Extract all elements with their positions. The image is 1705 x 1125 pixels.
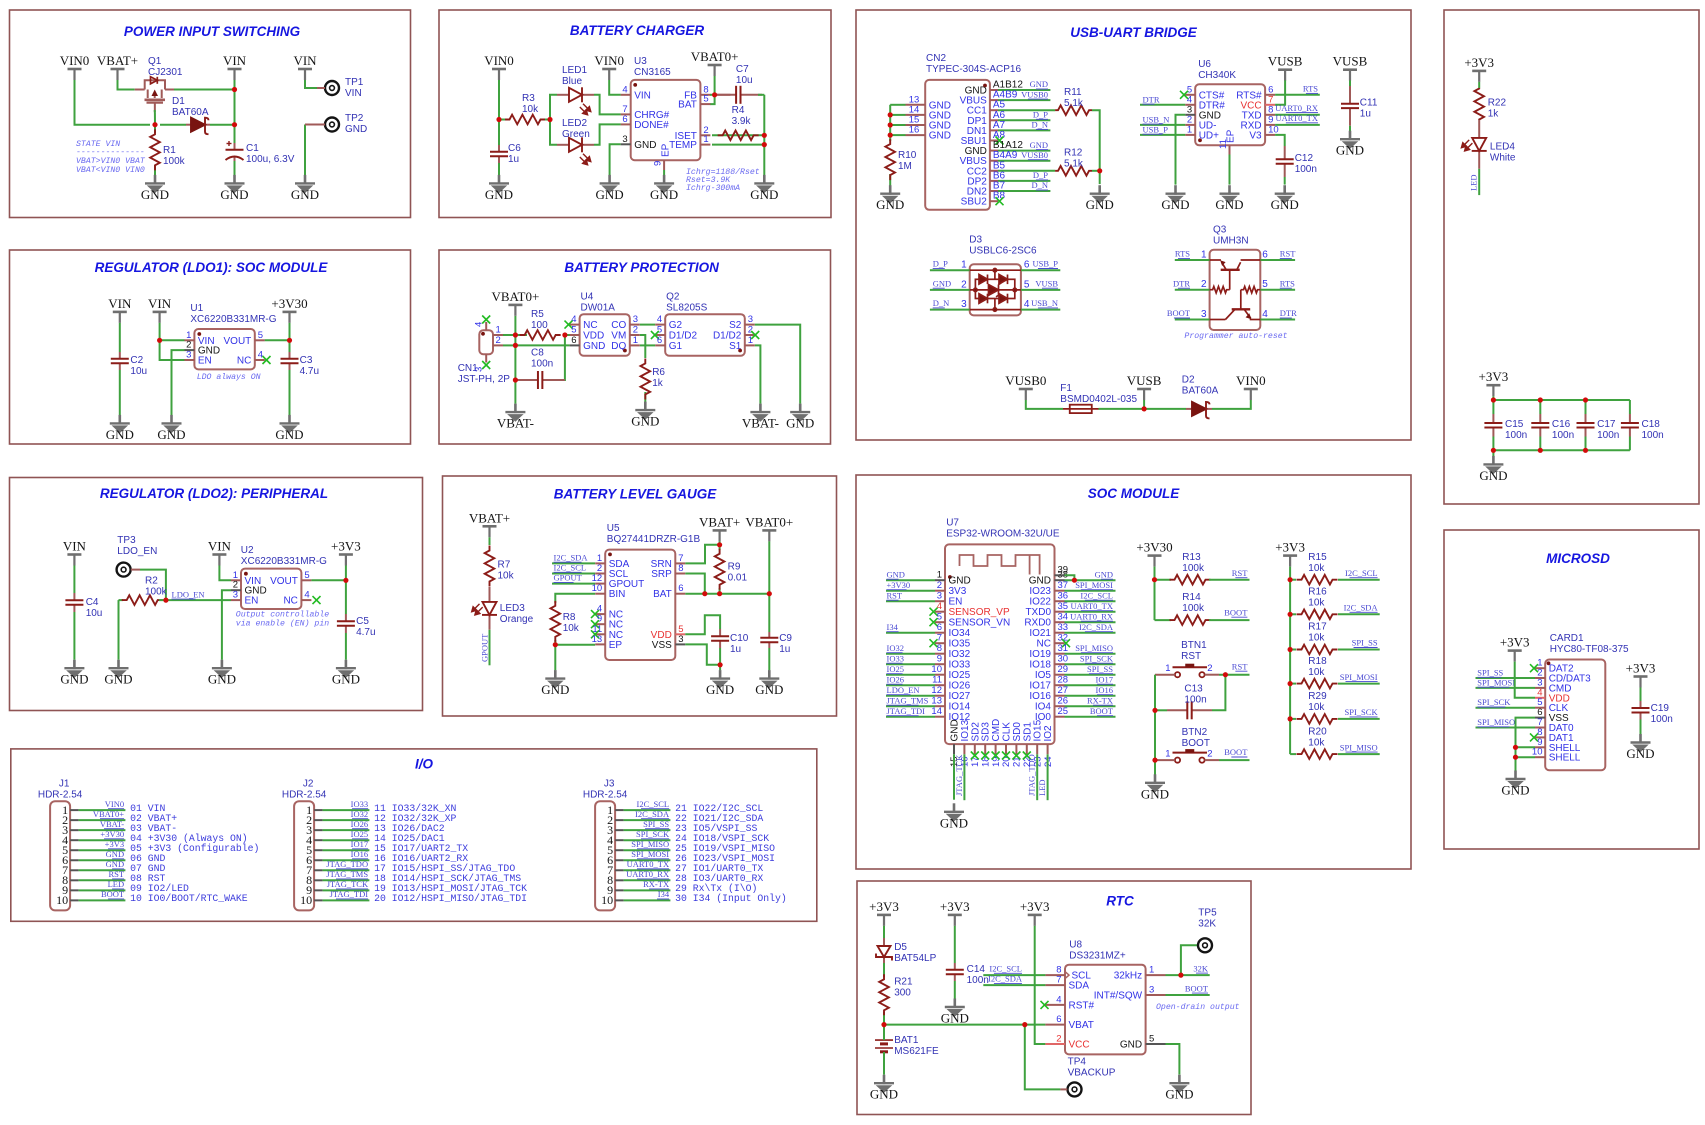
svg-text:1: 1 [633, 335, 638, 346]
wire R18 to SPI_MOSI [1338, 683, 1380, 685]
svg-text:2: 2 [496, 335, 501, 346]
svg-text:LDO_EN: LDO_EN [887, 685, 920, 695]
svg-text:U2: U2 [241, 545, 254, 556]
svg-text:2: 2 [1207, 749, 1212, 760]
svg-text:GND: GND [332, 672, 360, 687]
svg-text:7: 7 [937, 633, 942, 644]
wire JTAG_TDO (J2) [323, 869, 370, 871]
block SOC MODULE [856, 475, 1411, 869]
wire C15 top [1492, 400, 1494, 414]
svg-text:1: 1 [1201, 250, 1207, 261]
svg-text:C15: C15 [1505, 419, 1524, 430]
wire R14 to BOOT [1209, 619, 1250, 621]
pin 14 IO12 (U7) [935, 716, 945, 718]
wire SRP down [685, 574, 705, 594]
svg-text:VBAT0+: VBAT0+ [691, 49, 739, 64]
power +3V3 [1283, 556, 1297, 567]
svg-text:SDA: SDA [1069, 981, 1090, 992]
pin 18 SD3 (U7 bottom) [984, 744, 986, 754]
svg-text:20 IO12/HSPI_MISO/JTAG_TDI: 20 IO12/HSPI_MISO/JTAG_TDI [374, 893, 527, 904]
svg-text:VBAT0+: VBAT0+ [492, 289, 540, 304]
svg-text:10k: 10k [1308, 598, 1325, 609]
power +3V3 [339, 555, 353, 566]
pin 17 SD2 (U7 bottom) [974, 744, 976, 754]
pin 7 SDA (U8) [1045, 984, 1065, 986]
testpoint TP4 [1068, 1082, 1082, 1096]
svg-text:Programmer auto-reset: Programmer auto-reset [1184, 332, 1287, 341]
pin 3 (CN1) [485, 354, 487, 362]
capacitor C17 [1577, 414, 1595, 437]
junction R16 [1288, 612, 1293, 617]
svg-text:GPOUT: GPOUT [554, 573, 583, 583]
power +3V3 [1508, 651, 1522, 662]
svg-text:C4: C4 [86, 597, 99, 608]
pin 1 VIN (U2) [231, 579, 241, 581]
junction VOUT (U2) [343, 578, 348, 583]
no-connect U4 NC [565, 321, 573, 329]
wire DQ to G1 [640, 344, 655, 346]
wire C9 to GND [768, 648, 770, 670]
junction VIN0/R1/D1 node [152, 122, 157, 127]
wire LED2 to DONE# [594, 124, 621, 144]
svg-text:NC: NC [237, 356, 251, 367]
svg-text:GND: GND [876, 197, 904, 212]
ground VBAT- [505, 404, 525, 422]
wire VBAT0+ rail [768, 541, 770, 632]
svg-text:UD+: UD+ [1199, 130, 1219, 141]
wire BIN to R8 [555, 594, 595, 598]
svg-text:CARD1: CARD1 [1550, 633, 1584, 644]
svg-text:VIN: VIN [223, 53, 247, 68]
svg-text:I2C_SDA: I2C_SDA [988, 974, 1023, 984]
power +3V3 [948, 915, 962, 926]
pin 19 CMD (U7 bottom) [995, 744, 997, 754]
pin 37 IO23 (U7) [1055, 590, 1065, 592]
svg-text:5: 5 [1262, 279, 1268, 290]
connector J2 HDR-2.54 [294, 801, 314, 910]
wire R5 to VDD [565, 334, 580, 336]
ground (C10) [710, 670, 730, 688]
svg-text:BTN1: BTN1 [1181, 640, 1207, 651]
svg-text:D1: D1 [172, 96, 185, 107]
wire +3V3 to D5 [883, 926, 885, 938]
svg-text:R3: R3 [522, 93, 535, 104]
ground (C11) [1340, 131, 1360, 149]
svg-text:4: 4 [474, 322, 485, 327]
wire BOOT (U7 right) [1065, 716, 1116, 718]
wire VBAT+ down [719, 541, 721, 546]
wire C7 right down to GND [763, 95, 765, 175]
svg-text:VBAT0+: VBAT0+ [93, 809, 124, 819]
junction R17 [1288, 647, 1293, 652]
wire C18 top [1629, 400, 1631, 414]
svg-text:RST: RST [1232, 568, 1248, 578]
wire SPI_MOSI (U7 right) [1065, 590, 1116, 592]
wire R11 to R12 [1092, 110, 1100, 171]
svg-text:31: 31 [1058, 643, 1069, 654]
svg-text:R5: R5 [531, 309, 544, 320]
svg-text:R4: R4 [732, 105, 745, 116]
wire VSS to C10 bottom [685, 644, 720, 664]
pin 9 NC (U5) [595, 623, 605, 625]
pin 5 SENSOR_VN (U7) [935, 621, 945, 623]
wire node to C1 [234, 125, 236, 143]
svg-text:BOOT: BOOT [1090, 706, 1114, 716]
svg-text:+3V30: +3V30 [100, 829, 124, 839]
pin 8 SCL (U8) [1045, 974, 1065, 976]
pin 2 VCC (U8) [1045, 1043, 1065, 1045]
wire R3 to LED rail [545, 119, 550, 121]
wire UART0_RX (U7 right) [1065, 621, 1116, 623]
wire SHELL10 [1516, 756, 1536, 758]
wire U2 GND down [222, 590, 231, 660]
svg-text:5: 5 [937, 612, 942, 623]
svg-text:R1: R1 [163, 145, 176, 156]
svg-text:JTAG_TMS: JTAG_TMS [326, 869, 368, 879]
svg-text:10k: 10k [1308, 667, 1325, 678]
svg-text:39: 39 [1058, 564, 1069, 575]
op-amp U6 CH340K [1195, 84, 1265, 145]
svg-text:IO19: IO19 [1029, 649, 1051, 660]
svg-text:R6: R6 [652, 367, 665, 378]
wire VBAT0+ rail [514, 316, 516, 404]
no-connect U7 SENSOR_VP [930, 608, 938, 616]
svg-text:IO32: IO32 [351, 809, 368, 819]
svg-text:V3: V3 [1249, 130, 1262, 141]
no-connect Q2 pin5 [651, 331, 659, 339]
svg-text:D5: D5 [894, 942, 907, 953]
svg-text:2: 2 [1207, 663, 1212, 674]
wire USB_N to UD- [1140, 124, 1185, 126]
ground (C19) [1631, 734, 1651, 752]
svg-text:EN: EN [245, 596, 259, 607]
svg-text:HDR-2.54: HDR-2.54 [38, 790, 83, 801]
wire DTR (Q3) [1175, 289, 1210, 291]
svg-text:Q1: Q1 [148, 56, 162, 67]
wire JTAG_TDI (U7 left) [886, 716, 935, 718]
svg-text:SPI_MOSI: SPI_MOSI [631, 849, 669, 859]
svg-text:I34: I34 [658, 889, 670, 899]
wire +3V30 (U7 left) [886, 590, 935, 592]
resistor R4 [718, 131, 759, 141]
junction LDO_EN [163, 598, 168, 603]
svg-text:BAT54LP: BAT54LP [894, 953, 936, 964]
svg-text:GND: GND [104, 672, 132, 687]
svg-text:VBAT>VIN0 VBAT: VBAT>VIN0 VBAT [76, 157, 146, 166]
svg-text:XC6220B331MR-G: XC6220B331MR-G [241, 556, 327, 567]
svg-text:RST: RST [1280, 249, 1296, 259]
svg-text:R2: R2 [145, 576, 158, 587]
junction 32kHz/TP5 [1178, 973, 1183, 978]
svg-text:IO23: IO23 [1029, 586, 1051, 597]
LED LED2 [557, 137, 594, 152]
svg-text:R18: R18 [1308, 656, 1327, 667]
power VUSB [1137, 389, 1151, 400]
svg-text:0.01: 0.01 [728, 573, 748, 584]
svg-text:28: 28 [1058, 675, 1069, 686]
svg-text:CJ2301: CJ2301 [148, 67, 183, 78]
svg-text:IO2: IO2 [1043, 725, 1054, 742]
pin 26 IO4 (U7) [1055, 705, 1065, 707]
wire IO33 (J2) [323, 809, 370, 811]
wire UART0_TX (U7 right) [1065, 611, 1116, 613]
power VIN [67, 555, 81, 566]
svg-text:100u, 6.3V: 100u, 6.3V [246, 154, 295, 165]
svg-text:RXD0: RXD0 [1024, 618, 1051, 629]
block BATTERY LEVEL GAUGE [443, 476, 837, 716]
resistor R12 [1055, 166, 1092, 176]
svg-text:C9: C9 [779, 633, 792, 644]
wire RST (U7 left) [886, 600, 935, 602]
svg-text:R17: R17 [1308, 622, 1327, 633]
svg-text:10k: 10k [522, 104, 539, 115]
svg-text:IO17: IO17 [1096, 674, 1113, 684]
pin 10 IO25 (U7) [935, 674, 945, 676]
no-connect CARD1 DAT2 [1530, 664, 1538, 672]
svg-text:GND: GND [541, 682, 569, 697]
wire SPI_MOSI (CARD1) [1476, 687, 1536, 689]
svg-text:I2C_SDA: I2C_SDA [554, 552, 589, 562]
svg-text:5: 5 [1024, 279, 1030, 290]
svg-text:D_N: D_N [1031, 120, 1048, 130]
svg-text:GND: GND [870, 1087, 898, 1102]
svg-text:I2C_SDA: I2C_SDA [1079, 622, 1114, 632]
svg-text:IO16: IO16 [351, 849, 368, 859]
svg-text:3: 3 [1201, 309, 1207, 320]
svg-text:6: 6 [571, 335, 576, 346]
power VBAT+ [111, 69, 125, 80]
svg-text:BOOT: BOOT [1167, 308, 1191, 318]
wire to SRN [685, 545, 719, 564]
wire C15 bottom [1492, 437, 1494, 451]
wire CN2 pin15 [890, 124, 905, 126]
no-connect U7 SENSOR_VN [930, 618, 938, 626]
svg-text:I2C_SCL: I2C_SCL [637, 799, 670, 809]
wire +3V3 to C19 [1640, 688, 1642, 702]
wire SPI_MOSI (J3) [624, 859, 671, 861]
wire R6 to GND [644, 392, 646, 402]
svg-text:UART0_TX: UART0_TX [627, 859, 669, 869]
svg-text:+3V3: +3V3 [940, 899, 970, 914]
wire VDD to C10 [685, 615, 720, 634]
wire to GND [554, 645, 556, 671]
wire to R13 [1155, 579, 1172, 581]
svg-text:TP3: TP3 [117, 535, 136, 546]
svg-text:IO32: IO32 [949, 649, 971, 660]
pin 4 G2 (Q2) [655, 324, 665, 326]
wire to GND [1099, 171, 1101, 184]
svg-text:BOOT: BOOT [101, 889, 125, 899]
svg-text:EN: EN [949, 597, 963, 608]
svg-text:D2: D2 [1182, 375, 1195, 386]
svg-text:G2: G2 [669, 320, 683, 331]
svg-text:10k: 10k [498, 570, 515, 581]
pin 10 BIN (U5) [595, 593, 605, 595]
svg-text:SPI_SS: SPI_SS [1087, 664, 1113, 674]
svg-text:GND: GND [157, 427, 185, 442]
LED LED3 [482, 587, 497, 630]
svg-text:GND: GND [1086, 197, 1114, 212]
svg-text:VUSB: VUSB [1333, 54, 1368, 69]
svg-text:1u: 1u [779, 644, 790, 655]
svg-text:C3: C3 [300, 355, 313, 366]
pin 27 IO16 (U7) [1055, 695, 1065, 697]
junction BTN2/rail [1152, 758, 1157, 763]
resistor R10 [885, 139, 895, 180]
svg-text:100n: 100n [1505, 430, 1527, 441]
wire GND net GND [998, 89, 1050, 91]
svg-text:GND: GND [941, 1011, 969, 1026]
junction SHELL9 [1513, 745, 1518, 750]
wire +3V3 to VCC [1035, 926, 1046, 1044]
pin 3 CO (U4) [630, 324, 640, 326]
wire R9 to BAT [719, 588, 721, 594]
svg-text:IO4: IO4 [1035, 702, 1052, 713]
resistor R16 [1297, 610, 1338, 620]
pin 25 IO0 (U7) [1055, 716, 1065, 718]
svg-text:4: 4 [304, 590, 309, 601]
wire D5 to R21 [883, 963, 885, 977]
pin 6 BAT (U5) [675, 593, 685, 595]
svg-text:JST-PH, 2P: JST-PH, 2P [458, 374, 511, 385]
svg-text:GND: GND [1161, 197, 1189, 212]
svg-text:USB-UART BRIDGE: USB-UART BRIDGE [1070, 25, 1197, 40]
svg-text:1: 1 [748, 335, 753, 346]
power VUSB0 [1019, 389, 1033, 400]
pin 6 GND (U4) [570, 344, 580, 346]
wire LDO_EN (U7 left) [886, 695, 935, 697]
ground (S2) [790, 404, 810, 422]
wire to R29 [1290, 718, 1296, 720]
pin 5 VDD (U4) [570, 334, 580, 336]
ground (R10) [880, 185, 900, 203]
svg-text:C10: C10 [730, 633, 749, 644]
svg-text:SD2: SD2 [970, 722, 981, 742]
wire C19 to GND [1640, 720, 1642, 735]
svg-text:4.7u: 4.7u [300, 366, 319, 377]
svg-text:2: 2 [748, 325, 753, 336]
pin 32 NC (U7) [1055, 642, 1065, 644]
pin 7 DAT0 (CARD1) [1535, 727, 1545, 729]
testpoint TP5 [1198, 938, 1212, 952]
capacitor C3 [281, 352, 299, 370]
antenna squiggle (U7) [960, 555, 1040, 575]
pin 11 IO26 (U7) [935, 684, 945, 686]
wire +3V3 to VDD [1515, 662, 1535, 698]
svg-text:SRP: SRP [651, 569, 672, 580]
svg-text:+3V3: +3V3 [869, 899, 899, 914]
pin 31 IO19 (U7) [1055, 653, 1065, 655]
wire pin15 to GND [953, 754, 955, 799]
wire I2C_SCL to SCL [983, 974, 1045, 976]
wire to LED2 [550, 120, 557, 145]
wire D_N [930, 309, 970, 311]
power VIN [298, 69, 312, 80]
wire GND (J1) [79, 869, 126, 871]
block LED / decoupling [1444, 10, 1699, 504]
power VBAT+ [713, 530, 727, 541]
svg-text:GPOUT: GPOUT [479, 633, 489, 662]
svg-text:D_P: D_P [933, 259, 948, 269]
svg-text:MICROSD: MICROSD [1546, 551, 1610, 566]
pin 1 UD+ [1185, 134, 1195, 136]
wire I2C_SDA (J3) [624, 819, 671, 821]
svg-text:UART0_TX: UART0_TX [1276, 113, 1318, 123]
svg-text:100n: 100n [1651, 714, 1673, 725]
pin 30 IO18 (U7) [1055, 663, 1065, 665]
wire CC2 [998, 170, 1055, 172]
power +3V30 [1148, 556, 1162, 567]
svg-text:SD3: SD3 [981, 722, 992, 742]
svg-text:LED3: LED3 [500, 603, 525, 614]
wire DTR (Q3) [1260, 319, 1295, 321]
svg-text:30 I34 (Input Only): 30 I34 (Input Only) [675, 893, 787, 904]
svg-text:DS3231MZ+: DS3231MZ+ [1069, 951, 1126, 962]
wire U6 GND down [1176, 115, 1186, 185]
svg-text:R13: R13 [1182, 552, 1201, 563]
svg-text:U7: U7 [946, 518, 959, 529]
svg-text:U8: U8 [1069, 940, 1082, 951]
pin 2 ISET [700, 134, 710, 136]
wire bottom rail [1493, 449, 1630, 451]
junction GND rail 3 [888, 133, 893, 138]
svg-text:IO16: IO16 [1096, 685, 1113, 695]
svg-text:100k: 100k [1182, 603, 1205, 614]
svg-text:GND: GND [60, 672, 88, 687]
svg-text:DTR: DTR [1143, 94, 1160, 104]
power VIN [228, 69, 242, 80]
wire C5 to GND [345, 633, 347, 660]
capacitor C18 [1621, 414, 1639, 437]
pin 9 RXD [1265, 124, 1275, 126]
svg-text:via enable (EN) pin: via enable (EN) pin [236, 619, 329, 629]
svg-text:10: 10 [931, 664, 942, 675]
svg-text:Ichrg-300mA: Ichrg-300mA [686, 183, 740, 193]
pin 1 GND (U7) [935, 579, 945, 581]
capacitor C4 [65, 593, 83, 612]
svg-text:10k: 10k [1308, 633, 1325, 644]
svg-text:100n: 100n [1184, 694, 1206, 705]
svg-text:R7: R7 [498, 559, 511, 570]
svg-text:SHELL: SHELL [1549, 753, 1581, 764]
LED LED1 [557, 87, 594, 102]
pin 34 RXD0 (U7) [1055, 621, 1065, 623]
svg-text:J3: J3 [604, 779, 615, 790]
wire LED [1047, 754, 1049, 800]
wire RTS (Q3) [1175, 259, 1210, 261]
svg-text:BOOT: BOOT [1224, 747, 1248, 757]
svg-text:RST: RST [887, 590, 903, 600]
svg-text:GND: GND [1120, 1040, 1142, 1051]
resistor R8 [551, 601, 561, 642]
no-connect B8 [996, 197, 1004, 205]
block I/O [11, 749, 817, 921]
wire +3V30 rail [1154, 567, 1156, 621]
pin 1 DAT2 (CARD1) [1535, 667, 1545, 669]
no-connect Q2 pin2 [751, 331, 759, 339]
svg-text:I2C_SDA: I2C_SDA [1344, 603, 1379, 613]
svg-text:VOUT: VOUT [270, 576, 298, 587]
svg-text:1u: 1u [730, 644, 741, 655]
svg-text:GND: GND [949, 576, 971, 587]
ground (CARD1) [1506, 771, 1526, 789]
pin 8 FB [700, 94, 710, 96]
svg-text:R11: R11 [1064, 87, 1082, 98]
pin 13 GND (CN2) [906, 104, 926, 106]
ground (R6) [635, 402, 655, 420]
wire I34 (J3) [624, 899, 671, 901]
wire VIN to TP1 [305, 80, 317, 88]
